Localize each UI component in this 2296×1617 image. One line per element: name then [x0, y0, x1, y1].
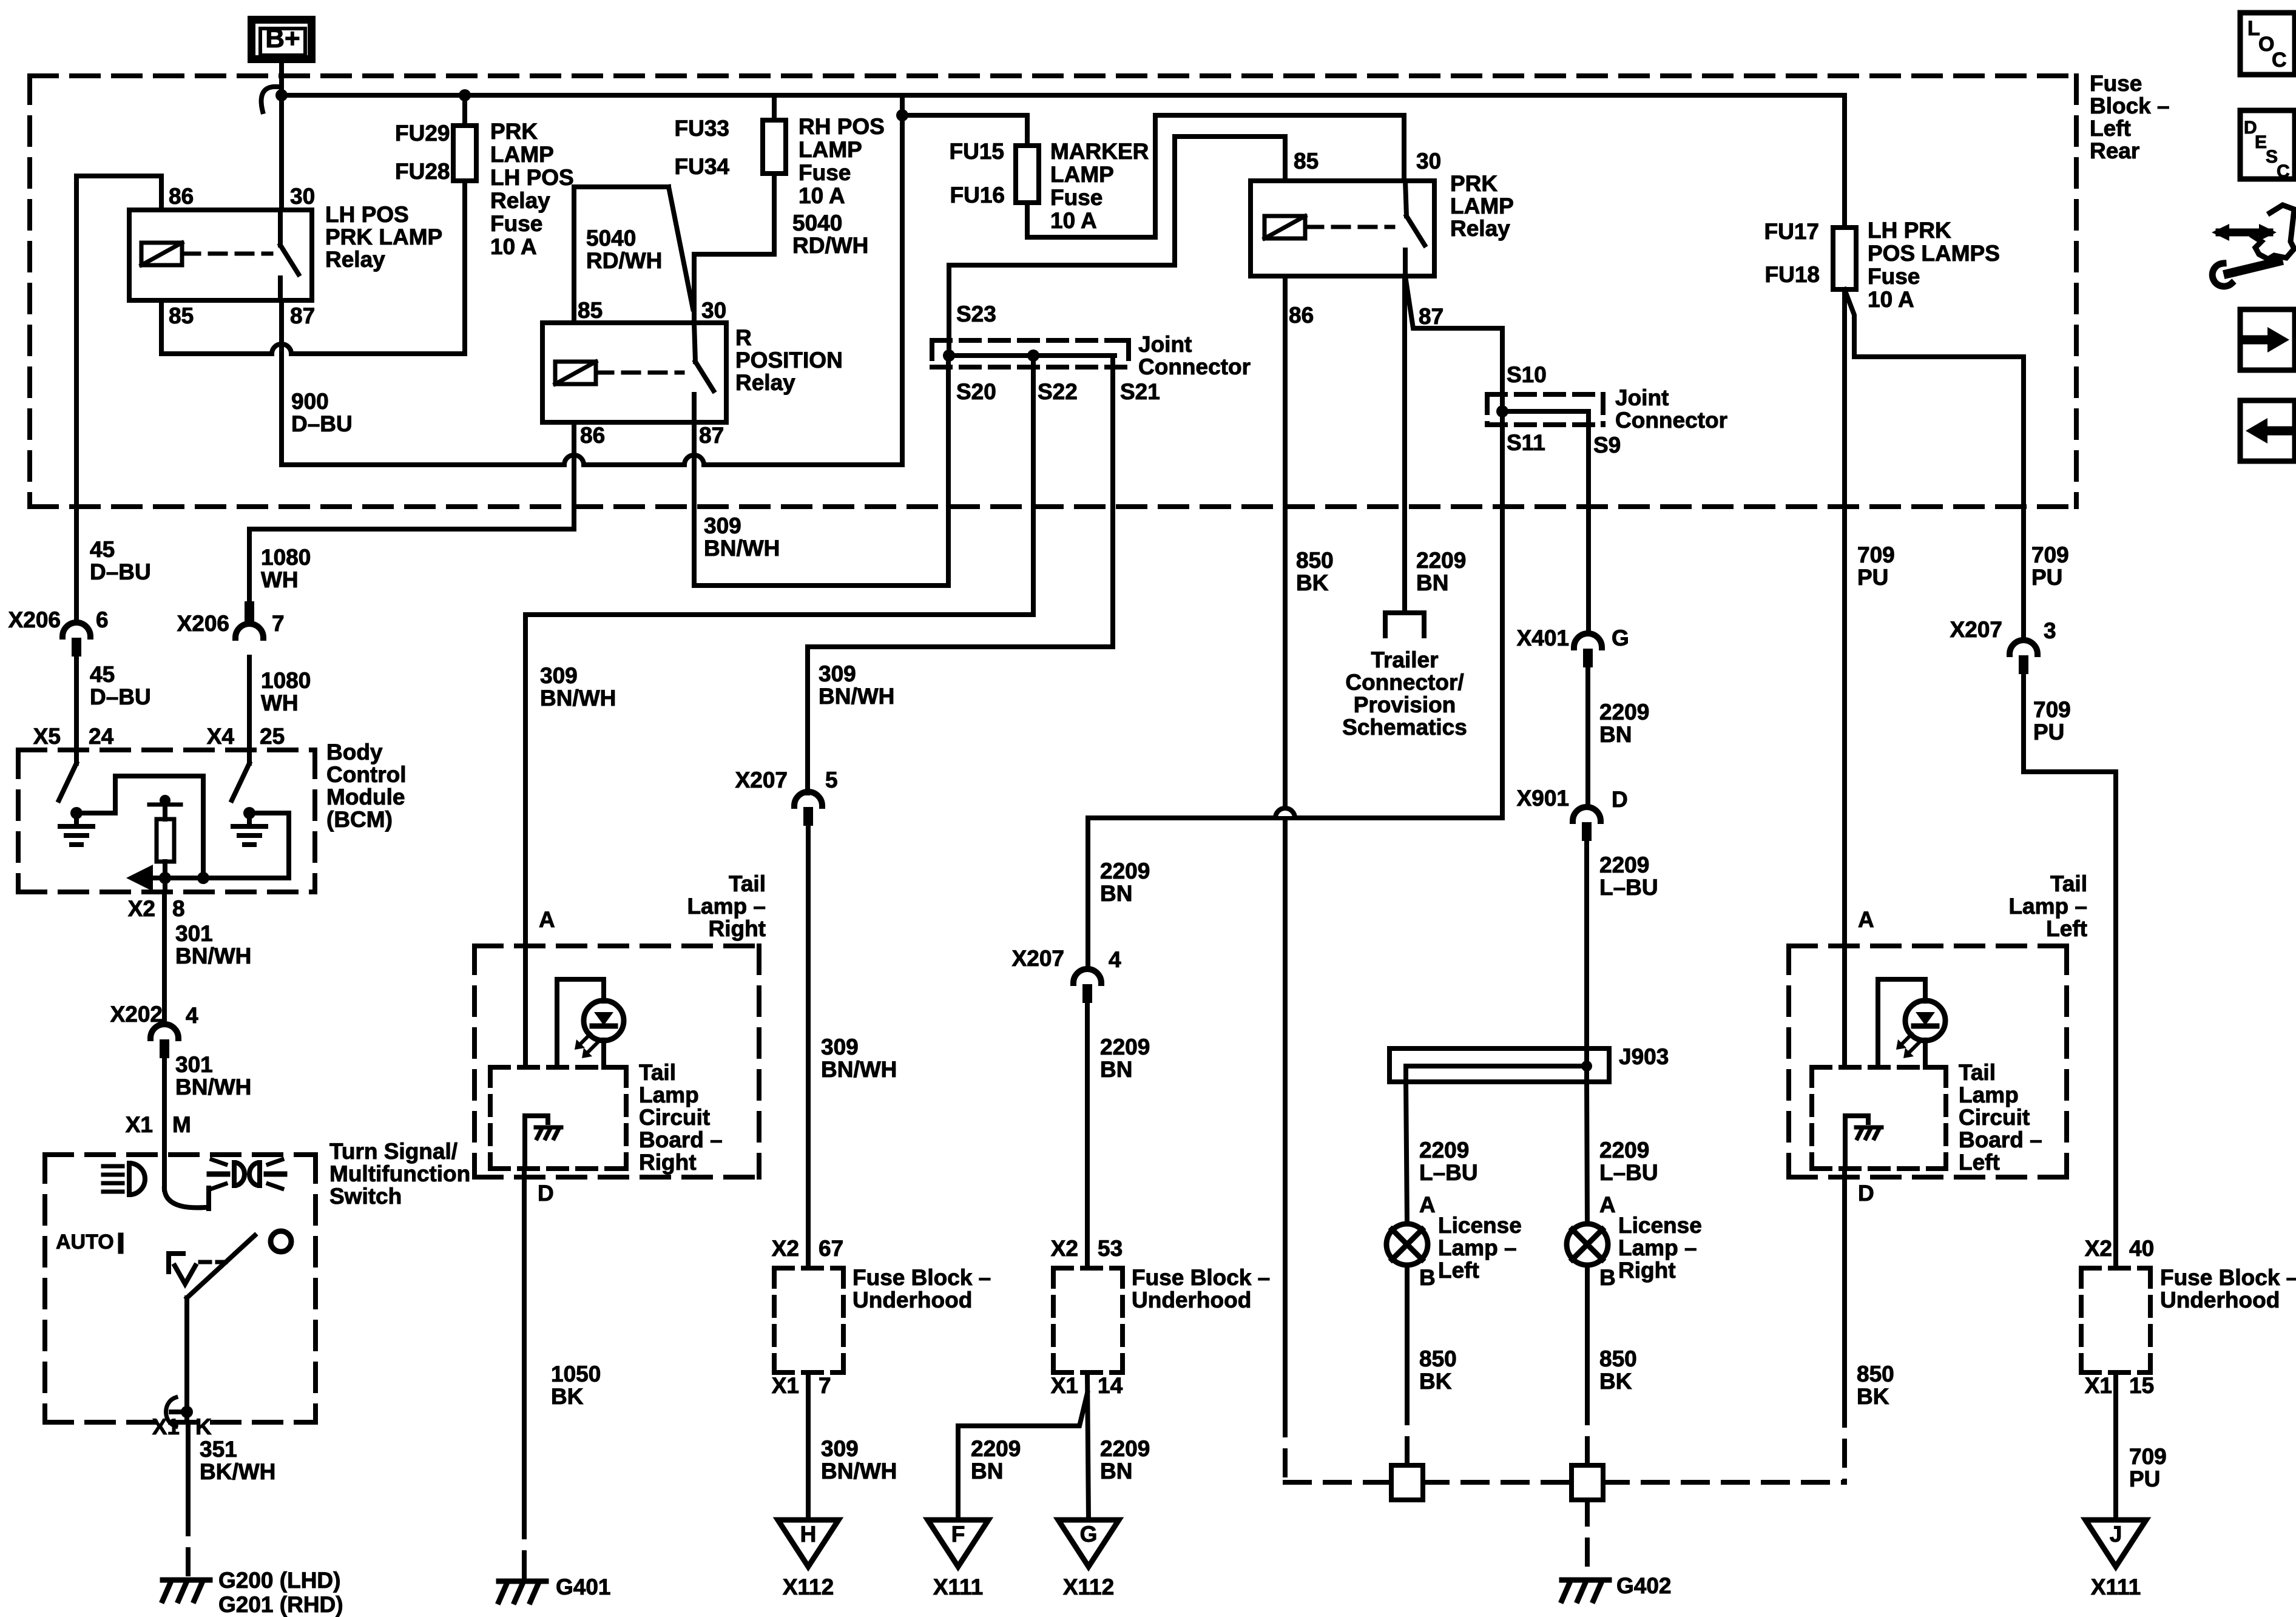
label 2209 L-BU (left): [1419, 1138, 1478, 1185]
wire relay K3 pin 87 diagonal branch: [1405, 276, 1502, 411]
svg-text:Trailer: Trailer: [1371, 647, 1438, 672]
LED tail left: [1896, 1001, 1945, 1058]
connector X207 pin 5: [794, 792, 822, 826]
svg-text:BK: BK: [1419, 1369, 1452, 1394]
svg-text:X2: X2: [1051, 1236, 1078, 1261]
joint connector bus: [949, 353, 1115, 358]
dashed box Fuse Block Underhood (J): [2081, 1268, 2150, 1372]
svg-text:BN: BN: [971, 1459, 1003, 1484]
svg-text:FU15: FU15: [950, 139, 1004, 164]
connector J triangle: [2085, 1520, 2146, 1567]
svg-text:D: D: [538, 1181, 554, 1206]
dashed wire to G401: [522, 1513, 527, 1578]
svg-text:Body: Body: [326, 740, 383, 765]
svg-text:BK: BK: [1857, 1384, 1889, 1409]
svg-text:C: C: [2272, 49, 2287, 72]
relay K1 LH POS PRK LAMP Relay box: [129, 210, 312, 300]
svg-text:BN: BN: [1416, 570, 1448, 595]
icon LOC box: [2240, 13, 2295, 75]
wire 2209 BN trailer stub: [1402, 276, 1407, 613]
svg-text:4: 4: [186, 1003, 198, 1028]
switch output wire: [184, 1298, 189, 1422]
svg-text:Left: Left: [2046, 916, 2087, 941]
relay K2 coil: [555, 362, 596, 384]
label 85 (K3): [1294, 149, 1319, 174]
label X401: [1517, 626, 1569, 650]
svg-text:1050: 1050: [551, 1362, 601, 1386]
label 30 (K3): [1416, 149, 1441, 174]
svg-text:1080: 1080: [261, 668, 311, 693]
wire 301 BN/WH lower: [162, 1059, 167, 1155]
label X901: [1517, 786, 1569, 811]
svg-text:S9: S9: [1593, 433, 1621, 457]
label 850 BK (license right): [1599, 1346, 1637, 1394]
relay K3 switch: [1405, 181, 1425, 276]
label X1 15: [2085, 1373, 2154, 1398]
label A (tail right): [539, 907, 555, 932]
svg-text:Lamp –: Lamp –: [2008, 894, 2087, 919]
hop of 2209 BN line over 850 BK wire: [1275, 808, 1295, 818]
wire 2209 L-BU to J903: [1584, 829, 1589, 1048]
svg-text:BN: BN: [1100, 1057, 1132, 1082]
fuse FU17/FU18 LH PRK POS LAMPS Fuse 10A: [1833, 228, 1856, 289]
junction dot at B+ bus: [275, 89, 288, 101]
junction dot S20: [943, 349, 955, 362]
dashed box Fuse Block Underhood (G): [1053, 1268, 1123, 1372]
label License Lamp - Left: [1438, 1213, 1522, 1283]
svg-text:X206: X206: [177, 611, 229, 636]
wire J903 internal: [1406, 1066, 1587, 1082]
wire 850 BK license right: [1585, 1265, 1590, 1399]
label 4 (X202): [186, 1003, 198, 1028]
wire relay K1 pin 86 up-left: [76, 176, 161, 210]
label PRK LAMP LH POS Relay Fuse 10 A: [490, 119, 574, 259]
connector F triangle: [928, 1520, 988, 1567]
label 5040 RD/WH left: [586, 226, 662, 273]
dashed box Fuse Block Underhood (H): [774, 1268, 843, 1372]
label X112 (H): [783, 1575, 834, 1599]
wire 1080 WH upper: [247, 529, 252, 601]
icon DESC box: [2240, 110, 2295, 181]
svg-text:X5: X5: [33, 724, 61, 749]
label X1 14: [1051, 1373, 1123, 1398]
svg-text:L–BU: L–BU: [1419, 1160, 1478, 1185]
svg-text:PRK LAMP: PRK LAMP: [325, 224, 442, 249]
LED loop right lower: [601, 1040, 606, 1067]
svg-text:40: 40: [2129, 1236, 2154, 1261]
label 309 BN/WH lower: [821, 1436, 897, 1484]
svg-text:(BCM): (BCM): [326, 807, 393, 832]
label G200 (LHD): [218, 1568, 340, 1593]
label 45 D-BU lower: [90, 662, 151, 709]
ground G200/G201: [163, 1580, 210, 1601]
svg-text:B+: B+: [265, 24, 300, 53]
svg-text:Left: Left: [1959, 1150, 2000, 1175]
svg-text:B: B: [1599, 1265, 1616, 1290]
dashed box Body Control Module: [18, 750, 315, 892]
svg-text:X901: X901: [1517, 786, 1569, 811]
connector X207 pin 4: [1073, 969, 1101, 1003]
svg-text:15: 15: [2129, 1373, 2154, 1398]
svg-text:1080: 1080: [261, 545, 311, 570]
label D (tail left): [1858, 1181, 1874, 1206]
svg-text:BN/WH: BN/WH: [540, 686, 616, 711]
svg-text:Board –: Board –: [639, 1127, 723, 1152]
connector X207 pin 3: [2010, 640, 2038, 674]
icon arrow right box: [2240, 309, 2295, 370]
svg-text:Provision: Provision: [1354, 692, 1456, 717]
svg-text:BN: BN: [1100, 1459, 1132, 1484]
wire S21 down: [808, 356, 1113, 793]
svg-text:Fuse: Fuse: [1050, 185, 1102, 210]
svg-text:2209: 2209: [1599, 700, 1649, 724]
wire fuse to relay pin 85 (hop over 87 wire): [161, 344, 465, 354]
svg-text:7: 7: [272, 611, 285, 636]
wire fuse FU16 S-bend to relay K3 pin 30: [1027, 115, 1404, 237]
dashed box Tail Lamp - Left: [1789, 946, 2067, 1177]
label Tail Lamp Circuit Board - Right: [639, 1060, 723, 1175]
svg-text:S23: S23: [956, 302, 996, 326]
wire relay K1 pin 30 from bus: [279, 95, 284, 210]
svg-text:Tail: Tail: [729, 871, 766, 896]
label J903: [1619, 1044, 1669, 1069]
wire S11 down: [1088, 411, 1502, 818]
BCM resistor: [157, 819, 174, 862]
svg-text:8: 8: [172, 896, 185, 921]
svg-text:X111: X111: [2091, 1575, 2141, 1599]
label 850 BK (license left): [1419, 1346, 1457, 1394]
junction dot S22: [1027, 349, 1039, 362]
wire bus to fuse FU29: [462, 95, 467, 126]
label 2209 L-BU (X901): [1599, 852, 1658, 900]
svg-text:POSITION: POSITION: [735, 348, 843, 373]
wire bus to feed riser: [900, 95, 905, 115]
label X111 (J): [2091, 1575, 2141, 1599]
BCM resistor lower wire: [163, 862, 167, 892]
label Fuse Block Underhood (H): [853, 1265, 991, 1312]
svg-text:86: 86: [1289, 303, 1314, 328]
svg-text:F: F: [951, 1522, 965, 1547]
dashed box Tail Lamp Circuit Board - Right: [490, 1067, 626, 1169]
svg-text:X1: X1: [2085, 1373, 2112, 1398]
svg-text:10 A: 10 A: [1868, 287, 1914, 312]
svg-text:X112: X112: [783, 1575, 834, 1599]
label 85 (K1): [169, 303, 194, 328]
wire 709 PU to J: [2113, 1372, 2118, 1520]
svg-text:LH POS: LH POS: [490, 165, 574, 190]
svg-text:BN/WH: BN/WH: [821, 1459, 897, 1484]
label FU15: [950, 139, 1004, 164]
BCM switch 2: [232, 750, 249, 800]
dashed box Fuse Block - Left Rear: [30, 76, 2076, 507]
wire into fuse FU15: [1025, 115, 1030, 146]
svg-text:Turn Signal/: Turn Signal/: [329, 1139, 458, 1164]
svg-text:Fuse: Fuse: [490, 211, 542, 236]
label FU34: [675, 154, 730, 179]
svg-text:Relay: Relay: [490, 188, 550, 213]
fuse FU29/FU28 PRK LAMP LH POS Relay Fuse 10A: [453, 126, 476, 181]
svg-text:S21: S21: [1120, 379, 1160, 404]
label X5: [33, 724, 61, 749]
dashed wire license right to ground line: [1585, 1399, 1590, 1465]
label S20: [956, 379, 996, 404]
svg-text:2209: 2209: [1416, 548, 1466, 573]
svg-text:G: G: [1612, 626, 1629, 650]
switch OFF contact: [169, 1254, 226, 1284]
AUTO tick: [118, 1235, 124, 1251]
wire S9 down: [1586, 411, 1591, 633]
wire 309 BN/WH relay K2 pin 87 down: [694, 422, 948, 586]
splice hook at bus: [262, 87, 278, 112]
label 87 (K1): [290, 303, 315, 328]
svg-text:2209: 2209: [971, 1436, 1021, 1461]
wire B+ to bus: [279, 63, 284, 97]
wire relay K1 pin 85: [159, 300, 164, 354]
wire 2209 BN to G: [1087, 1372, 1089, 1520]
svg-text:309: 309: [540, 663, 578, 688]
wire 2209 BN to fuse block G: [1085, 1002, 1090, 1268]
svg-text:FU18: FU18: [1765, 262, 1820, 287]
label G401: [556, 1575, 611, 1599]
svg-text:L–BU: L–BU: [1599, 1160, 1658, 1185]
wire relay K2 pin85 riser: [574, 187, 669, 323]
svg-text:LAMP: LAMP: [1050, 162, 1114, 187]
wire 709 PU tail left feed: [1842, 289, 1847, 1067]
ground splice square right: [1572, 1465, 1603, 1500]
wire 309 BN/WH to fuse block: [806, 827, 811, 1268]
svg-text:D–BU: D–BU: [90, 684, 151, 709]
label Turn Signal Multifunction Switch: [329, 1139, 470, 1209]
svg-text:AUTO: AUTO: [56, 1230, 114, 1254]
label 4: [1109, 947, 1121, 972]
wire link to pin30 (diagonal): [669, 187, 693, 309]
connector X401 pin G: [1574, 633, 1602, 667]
switch wiper arc: [164, 1155, 209, 1209]
wire 900 D-BU relay K1 pin87 down: [279, 300, 284, 465]
label 301 BN/WH upper: [175, 921, 251, 968]
svg-text:LAMP: LAMP: [1450, 194, 1514, 218]
label 24: [89, 724, 114, 749]
wire 5040 RD/WH fuse output: [694, 174, 774, 323]
svg-text:Tail: Tail: [639, 1060, 676, 1085]
junction dot J903: [1581, 1061, 1592, 1072]
svg-text:C: C: [2277, 161, 2290, 181]
svg-text:PRK: PRK: [490, 119, 538, 144]
svg-text:Schematics: Schematics: [1342, 715, 1467, 740]
svg-text:D–BU: D–BU: [291, 411, 353, 436]
svg-text:Fuse: Fuse: [2090, 71, 2142, 96]
wire 309 BN/WH to H: [806, 1372, 811, 1520]
svg-text:709: 709: [1857, 542, 1895, 567]
svg-text:10 A: 10 A: [799, 183, 845, 208]
label 86 (K3): [1289, 303, 1314, 328]
svg-text:14: 14: [1098, 1373, 1123, 1398]
dashed wire license left to ground line: [1405, 1399, 1410, 1465]
svg-text:Connector: Connector: [1138, 354, 1251, 379]
dashed box Tail Lamp - Right: [474, 946, 759, 1177]
wire 2209 L-BU to license right: [1587, 1082, 1587, 1224]
wire 351 BK/WH: [186, 1422, 191, 1510]
label 87 (K3): [1419, 304, 1443, 329]
label 86 (K2): [580, 423, 605, 448]
connector H triangle: [778, 1520, 839, 1567]
BCM wire switch1 to resistor node: [76, 776, 203, 878]
dashed drop to G402: [1585, 1500, 1590, 1576]
svg-text:3: 3: [2044, 618, 2056, 643]
svg-text:S20: S20: [956, 379, 996, 404]
svg-text:4: 4: [1109, 947, 1121, 972]
svg-text:Control: Control: [326, 762, 407, 787]
BCM earth ground 1: [60, 813, 93, 845]
svg-text:Circuit: Circuit: [1959, 1105, 2030, 1130]
label 309 BN/WH tail right feed: [540, 663, 616, 711]
svg-text:Lamp –: Lamp –: [1618, 1235, 1697, 1260]
ground G402: [1562, 1580, 1609, 1601]
svg-text:K: K: [195, 1414, 212, 1439]
joint connector dashed box (S23): [932, 340, 1129, 367]
svg-text:J: J: [2110, 1522, 2122, 1547]
BCM switch 1: [59, 750, 76, 800]
switch splice dot: [181, 1406, 193, 1418]
svg-text:Fuse: Fuse: [1868, 264, 1920, 289]
relay K3 coil: [1264, 216, 1305, 238]
relay K3 PRK LAMP Relay box: [1251, 181, 1434, 276]
label G402: [1616, 1573, 1672, 1598]
BCM switch 1 contact dot: [70, 807, 83, 819]
svg-text:309: 309: [819, 661, 856, 686]
svg-text:G402: G402: [1616, 1573, 1672, 1598]
svg-text:FU34: FU34: [675, 154, 730, 179]
svg-text:A: A: [1858, 907, 1874, 932]
svg-text:850: 850: [1857, 1362, 1894, 1386]
wire 2209 L-BU to license left: [1406, 1082, 1407, 1224]
label X2 67: [772, 1236, 843, 1261]
svg-text:FU33: FU33: [675, 116, 729, 141]
svg-text:FU29: FU29: [395, 121, 450, 146]
label 309 BN/WH at K2-87: [704, 513, 780, 561]
svg-text:Left: Left: [1438, 1258, 1479, 1283]
battery terminal B+: [248, 16, 316, 63]
label Fuse Block Underhood (J): [2160, 1265, 2296, 1312]
label S10: [1507, 362, 1547, 387]
svg-text:Joint: Joint: [1615, 385, 1669, 410]
wire 900 D-BU to feed riser (hops over 86/87 of K2): [282, 455, 902, 465]
svg-text:Tail: Tail: [1959, 1060, 1996, 1085]
svg-text:309: 309: [821, 1436, 859, 1461]
BCM earth ground 2: [233, 813, 266, 845]
BCM junction dot resistor: [159, 872, 171, 884]
feed riser to dot: [900, 115, 905, 465]
svg-text:309: 309: [821, 1035, 859, 1059]
label 2209 BN (G): [1100, 1436, 1150, 1484]
label RH POS LAMP Fuse 10 A: [799, 114, 885, 208]
wire 850 BK relay K3 pin 86 down: [1283, 276, 1288, 1411]
label 850 BK (tail left): [1857, 1362, 1894, 1409]
svg-text:351: 351: [200, 1437, 237, 1462]
svg-text:PU: PU: [2031, 565, 2062, 590]
wire S20 down: [946, 356, 951, 586]
svg-text:Switch: Switch: [329, 1184, 402, 1209]
relay K2 coil-switch dashed link: [596, 371, 683, 375]
label Tail Lamp - Left: [2008, 871, 2087, 941]
svg-text:2209: 2209: [1599, 1138, 1649, 1163]
svg-text:LAMP: LAMP: [799, 137, 862, 162]
bus wire from B+ to FU17: [282, 93, 1845, 98]
label S11: [1507, 430, 1545, 455]
label 45 D-BU upper: [90, 537, 151, 584]
label X207 (4): [1012, 946, 1064, 971]
board ground right: [525, 1116, 561, 1169]
label X1 M: [126, 1112, 191, 1137]
svg-text:LH PRK: LH PRK: [1868, 218, 1951, 243]
label A (license left): [1419, 1192, 1436, 1217]
label Fuse Block Underhood (G): [1132, 1265, 1270, 1312]
svg-text:X1: X1: [772, 1373, 799, 1398]
svg-text:G: G: [1080, 1522, 1098, 1547]
icon arrow left box: [2240, 400, 2295, 461]
svg-text:FU16: FU16: [950, 183, 1005, 208]
label 1080 WH lower: [261, 668, 311, 715]
label 7: [272, 611, 285, 636]
svg-text:S: S: [2266, 147, 2278, 167]
svg-text:709: 709: [2033, 697, 2071, 722]
wire 2209 BN between X401 and X901: [1585, 656, 1590, 807]
label PRK LAMP Relay: [1450, 171, 1514, 241]
svg-text:FU28: FU28: [395, 159, 450, 184]
svg-text:Lamp –: Lamp –: [687, 894, 766, 919]
svg-text:PU: PU: [1857, 565, 1888, 590]
switch blade: [187, 1235, 255, 1298]
label FU28: [395, 159, 450, 184]
label Body Control Module (BCM): [326, 740, 407, 832]
label S23: [956, 302, 996, 326]
svg-text:S11: S11: [1507, 430, 1545, 455]
svg-text:X112: X112: [1063, 1575, 1114, 1599]
svg-text:10 A: 10 A: [1050, 208, 1097, 233]
relay K2 R POSITION Relay box: [542, 323, 726, 422]
connector X202 pin 4: [150, 1024, 178, 1058]
svg-text:86: 86: [169, 184, 194, 209]
label X112 (G): [1063, 1575, 1114, 1599]
connector G triangle: [1058, 1520, 1119, 1567]
label S22: [1038, 379, 1078, 404]
svg-text:Lamp: Lamp: [1959, 1082, 2019, 1107]
label Trailer Connector Provision Schematics: [1342, 647, 1467, 740]
svg-text:BN/WH: BN/WH: [821, 1057, 897, 1082]
label 1050 BK: [551, 1362, 601, 1409]
label X207 (3): [1950, 617, 2002, 642]
label 900 D-BU: [291, 389, 353, 436]
junction dot at FU29 branch: [459, 89, 471, 101]
svg-text:X2: X2: [772, 1236, 799, 1261]
svg-text:Board –: Board –: [1959, 1127, 2042, 1152]
svg-text:2209: 2209: [1419, 1138, 1469, 1163]
label 2209 BN (S11 path): [1100, 859, 1150, 906]
label MARKER LAMP Fuse 10 A: [1050, 139, 1149, 233]
svg-text:D: D: [1858, 1181, 1874, 1206]
label 2209 BN (F): [971, 1436, 1021, 1484]
svg-text:BK: BK: [1599, 1369, 1632, 1394]
wire D tail left: [1842, 1169, 1847, 1401]
dashed box Turn Signal Multifunction Switch: [45, 1155, 316, 1422]
relay K3 coil-switch dashed link: [1306, 225, 1393, 229]
label FU29: [395, 121, 450, 146]
svg-text:Connector/: Connector/: [1345, 670, 1464, 695]
label Tail Lamp Circuit Board - Left: [1959, 1060, 2042, 1175]
svg-text:RD/WH: RD/WH: [792, 233, 868, 258]
svg-text:X1: X1: [1051, 1373, 1078, 1398]
wire 2209 BN branch to F: [958, 1393, 1087, 1520]
